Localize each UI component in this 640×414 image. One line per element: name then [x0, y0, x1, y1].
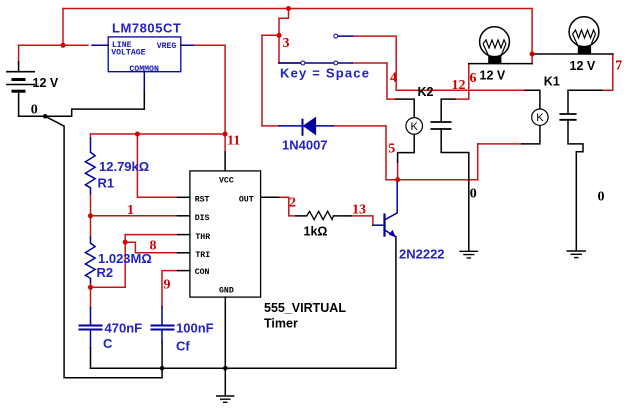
svg-text:RST: RST [195, 196, 210, 205]
svg-text:Key = Space: Key = Space [280, 66, 370, 81]
svg-text:R1: R1 [98, 176, 115, 191]
svg-text:9: 9 [164, 278, 171, 293]
svg-text:555_VIRTUAL: 555_VIRTUAL [264, 301, 346, 315]
svg-text:CON: CON [195, 268, 210, 277]
svg-text:K1: K1 [544, 75, 560, 89]
svg-text:Timer: Timer [264, 317, 298, 331]
svg-text:2N2222: 2N2222 [399, 247, 445, 262]
svg-text:12 V: 12 V [33, 76, 59, 90]
svg-text:VOLTAGE: VOLTAGE [111, 48, 145, 57]
svg-text:1.023MΩ: 1.023MΩ [98, 251, 152, 266]
svg-text:12.79kΩ: 12.79kΩ [99, 159, 149, 174]
svg-text:2: 2 [289, 196, 296, 211]
svg-text:7: 7 [615, 59, 622, 74]
svg-text:COMMON: COMMON [129, 65, 159, 74]
svg-text:5: 5 [388, 142, 395, 157]
svg-text:R2: R2 [97, 265, 114, 280]
svg-text:Cf: Cf [176, 339, 190, 354]
svg-text:DIS: DIS [195, 214, 210, 223]
svg-text:VCC: VCC [219, 177, 234, 186]
svg-text:K2: K2 [418, 85, 434, 99]
svg-text:4: 4 [390, 71, 397, 86]
svg-text:K: K [411, 121, 419, 133]
svg-text:1N4007: 1N4007 [282, 138, 328, 153]
svg-text:12: 12 [452, 78, 466, 93]
svg-text:TRI: TRI [195, 251, 210, 260]
svg-text:LM7805CT: LM7805CT [112, 21, 181, 36]
svg-text:0: 0 [598, 190, 605, 205]
svg-text:100nF: 100nF [176, 321, 214, 336]
svg-text:OUT: OUT [239, 196, 254, 205]
svg-text:3: 3 [283, 36, 290, 51]
svg-text:6: 6 [470, 71, 477, 86]
svg-text:1kΩ: 1kΩ [304, 225, 328, 239]
svg-text:13: 13 [352, 203, 366, 218]
svg-text:K: K [536, 112, 544, 124]
svg-text:470nF: 470nF [105, 321, 143, 336]
svg-text:0: 0 [470, 187, 477, 202]
svg-text:GND: GND [219, 286, 234, 295]
svg-text:C: C [103, 336, 113, 351]
svg-text:0: 0 [31, 103, 38, 118]
svg-text:12 V: 12 V [480, 68, 506, 82]
svg-text:VREG: VREG [157, 42, 177, 51]
svg-text:11: 11 [227, 134, 240, 149]
svg-text:1: 1 [127, 203, 134, 218]
svg-text:THR: THR [195, 233, 210, 242]
svg-text:12 V: 12 V [570, 59, 596, 73]
